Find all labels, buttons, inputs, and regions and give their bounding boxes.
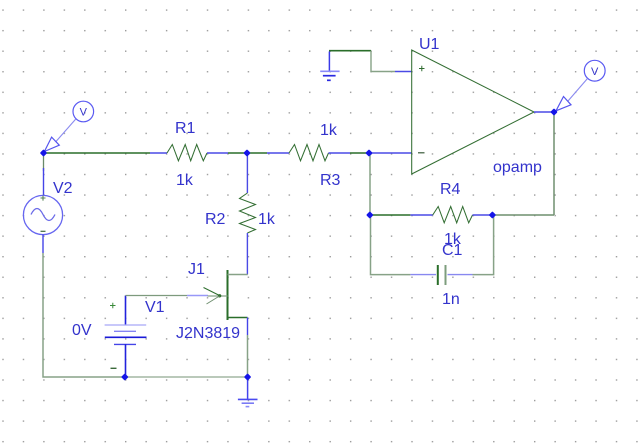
node D — [550, 108, 557, 115]
op-amp U1 — [412, 50, 534, 174]
wire ground to op-amp plus input — [329, 51, 412, 72]
wire node B to R3 — [247, 152, 267, 154]
svg-text:0V: 0V — [72, 322, 92, 339]
wire node G to node H — [125, 376, 248, 378]
wire C1 to node F — [473, 215, 494, 275]
svg-text:U1: U1 — [419, 36, 440, 53]
svg-text:J1: J1 — [188, 261, 205, 278]
resistor R3 — [267, 145, 350, 161]
wire node E down to C1 — [371, 215, 411, 275]
node G — [121, 373, 128, 380]
voltage probe (input node) — [44, 101, 93, 151]
resistor R1 — [150, 145, 228, 161]
node A — [40, 149, 47, 156]
svg-text:opamp: opamp — [493, 159, 542, 176]
node B — [243, 149, 250, 156]
ground (below JFET source) — [238, 377, 258, 407]
wire feedback row to node F — [492, 214, 554, 216]
svg-text:1n: 1n — [442, 291, 460, 308]
svg-text:R4: R4 — [440, 181, 461, 198]
source V2 — [23, 195, 62, 234]
wire R1 to node B — [228, 152, 247, 154]
svg-text:J2N3819: J2N3819 — [176, 325, 240, 342]
node F — [489, 211, 496, 218]
wire V2 bottom to node G — [43, 253, 125, 377]
capacitor C1 — [410, 265, 472, 285]
svg-text:1k: 1k — [320, 122, 338, 139]
transistor J1 (JFET J2N3819) — [204, 270, 248, 320]
resistor R4 — [410, 207, 490, 223]
svg-text:1k: 1k — [176, 172, 194, 189]
ground (op-amp + input) — [320, 52, 339, 81]
svg-text:V2: V2 — [53, 180, 73, 197]
node C — [365, 149, 372, 156]
wire op-amp output to node D — [534, 111, 554, 113]
svg-text:R3: R3 — [320, 172, 341, 189]
svg-text:R1: R1 — [175, 120, 196, 137]
wire R3 to node C — [350, 152, 369, 154]
svg-text:V1: V1 — [145, 299, 165, 316]
resistor R2 — [240, 153, 256, 275]
wire node E to R4 — [370, 214, 411, 216]
svg-text:C1: C1 — [442, 242, 463, 259]
source V1 (battery) — [105, 296, 147, 378]
svg-text:R2: R2 — [205, 211, 226, 228]
svg-text:1k: 1k — [258, 211, 276, 228]
wire JFET source down to node H — [247, 318, 249, 336]
wire V1 plus to JFET gate — [126, 295, 188, 297]
wire node C down to node E — [369, 153, 371, 215]
svg-text:V: V — [80, 107, 88, 119]
svg-text:V: V — [591, 66, 599, 78]
wire V2 bottom pin — [42, 235, 44, 254]
wire node C to op-amp minus input — [369, 152, 412, 154]
voltage probe (output node) — [556, 60, 605, 111]
wire node A to R1 — [44, 152, 151, 154]
wire node A down to V2 — [43, 153, 45, 196]
node H — [244, 373, 251, 380]
node E — [366, 211, 373, 218]
wire node D down to feedback row — [553, 112, 555, 215]
